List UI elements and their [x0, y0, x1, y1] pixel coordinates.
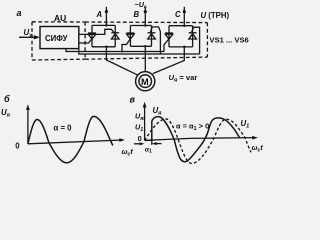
svg-text:М: М — [141, 77, 149, 87]
plot в x-axis — [145, 138, 256, 141]
node top of leg C — [183, 13, 185, 26]
terminal C — [183, 7, 185, 10]
svg-text:СИФУ: СИФУ — [45, 34, 68, 43]
gate riser leg B left — [122, 39, 130, 52]
node bottom of leg C — [183, 46, 186, 49]
svg-text:Uя,: Uя, — [135, 112, 145, 123]
α1 tick — [151, 140, 153, 145]
thyristor leg B: loop — [130, 26, 151, 47]
node top of leg A — [105, 13, 107, 25]
svg-text:0: 0 — [15, 142, 20, 151]
thyristor VS left of leg A (conducts down) — [88, 33, 96, 39]
svg-text:A: A — [96, 10, 103, 19]
gate wire to left thyristor of leg A — [79, 39, 92, 43]
svg-text:а: а — [17, 8, 22, 18]
svg-text:C: C — [175, 10, 181, 19]
svg-text:ωсt: ωсt — [122, 147, 134, 158]
motor M inner circle — [139, 75, 152, 88]
motor M outer circle — [136, 72, 155, 91]
thyristor leg A: loop — [92, 25, 115, 46]
gate riser leg C left — [164, 39, 169, 52]
α1 dimension marker left arrow — [134, 143, 142, 145]
plot б x-axis — [28, 140, 123, 144]
block СИФУ — [40, 27, 79, 49]
svg-text:0: 0 — [138, 134, 142, 143]
svg-text:б: б — [4, 94, 10, 104]
thyristor VS left of leg B (conducts down) — [127, 33, 135, 39]
svg-text:α1: α1 — [145, 146, 152, 154]
gate bus 1 (to left thyristors B,C) — [66, 49, 164, 52]
sine curve б — [28, 116, 113, 162]
solid curve Uя (в) — [145, 117, 240, 162]
svg-text:в: в — [130, 94, 136, 104]
node top of leg B — [144, 13, 146, 26]
thyristor VS left of leg C (conducts down) — [165, 33, 173, 39]
α1 dimension marker right arrow — [154, 143, 162, 145]
plot в y-axis — [144, 105, 146, 141]
node bottom of leg A — [105, 46, 108, 49]
gate wire to right thyristor of leg A — [79, 29, 115, 34]
terminal B — [144, 7, 146, 10]
dashed sine U1 — [145, 119, 251, 163]
svg-text:VS1 ... VS6: VS1 ... VS6 — [210, 35, 249, 44]
thyristor VS right of leg B (conducts up) — [148, 33, 156, 39]
gate riser leg C right — [191, 27, 199, 54]
thyristor leg C: loop — [169, 26, 193, 47]
wire leg C output to motor — [153, 47, 185, 74]
svg-text:U (ТРН): U (ТРН) — [201, 11, 230, 20]
plot б y-axis — [27, 107, 29, 144]
svg-text:α = 0: α = 0 — [54, 123, 73, 132]
input Uу arrow — [19, 36, 38, 38]
node bottom of leg B — [144, 45, 147, 48]
gate bus 2 (to right thyristors B,C) — [79, 49, 200, 54]
svg-text:B: B — [134, 10, 140, 19]
svg-text:ωсt: ωсt — [252, 143, 264, 154]
thyristor VS right of leg A (conducts up) — [111, 33, 119, 39]
terminal A — [105, 7, 107, 10]
svg-text:Uя = var: Uя = var — [169, 73, 198, 84]
gate riser leg B right — [150, 27, 160, 54]
thyristor VS right of leg C (conducts up) — [189, 33, 197, 39]
dashed box AU — [32, 22, 85, 60]
dashed box U(ТРН) — [85, 22, 207, 59]
wire leg A output to motor — [106, 47, 138, 76]
wire leg B output to motor — [144, 46, 146, 71]
